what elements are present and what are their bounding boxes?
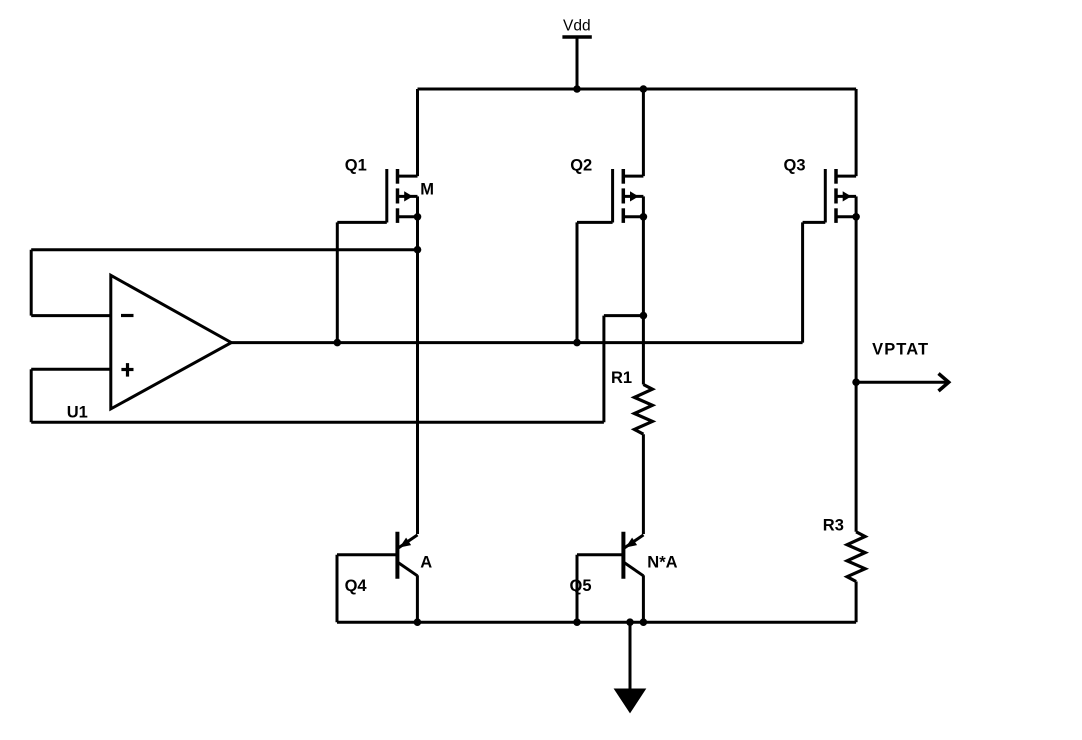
junction R1 top sense tap [640, 312, 648, 320]
junction Q1 source/bulk tie [414, 213, 422, 221]
wire Q4 base (diode tie) [337, 555, 398, 623]
wire inverting input [31, 314, 111, 317]
wire VPTAT output arrow [856, 374, 949, 392]
transistor Q4 (bipolar) [397, 532, 417, 622]
junction Q1 drain sense tap [414, 246, 422, 254]
svg-text:M: M [420, 180, 434, 198]
junction Q2 source/bulk tie [640, 213, 648, 221]
junction Q4 emitter on rail [414, 618, 422, 626]
junction ground stem on rail [626, 618, 634, 626]
wire R1 bottom to Q5 collector [642, 434, 645, 534]
wire R3 bottom to ground rail [855, 582, 858, 623]
resistor R3 [847, 532, 865, 582]
junction Vdd stem on rail [573, 85, 581, 93]
svg-text:N*A: N*A [647, 553, 677, 571]
junction op-amp output / Q2 gate [573, 339, 581, 347]
svg-text:A: A [420, 553, 432, 571]
wire Q1 source down to Q4 collector [416, 217, 419, 534]
junction Q5 emitter on rail [640, 618, 648, 626]
junction Q2 drain on rail [640, 85, 648, 93]
wire Q1 drain to rail [416, 89, 419, 176]
ground symbol [614, 622, 647, 713]
wire Q3 gate lead [803, 222, 826, 342]
junction Q5 base on rail [573, 618, 581, 626]
transistor Q3 (PMOS) [825, 169, 856, 223]
wire non-inverting feedback from R1 top [31, 316, 643, 423]
wire Q3 source down to VPTAT node [855, 217, 858, 532]
transistor Q1 (PMOS) [387, 169, 418, 223]
wire inverting feedback from Q1 drain [31, 250, 417, 316]
wire Q3 drain to rail [855, 89, 858, 176]
junction VPTAT tap [852, 378, 860, 386]
svg-text:VPTAT: VPTAT [872, 341, 929, 359]
power symbol Vdd [562, 37, 591, 89]
wire op-amp output [231, 341, 802, 344]
wire Q2 drain to rail [642, 89, 645, 176]
wire Q1 gate lead [337, 222, 387, 342]
junction Q3 source/bulk tie [852, 213, 860, 221]
transistor Q2 (PMOS) [613, 169, 644, 223]
wire Q5 base (diode tie) [577, 555, 624, 623]
transistor Q5 (bipolar) [623, 532, 643, 622]
svg-text:Q1: Q1 [345, 157, 367, 175]
svg-text:R3: R3 [823, 516, 844, 534]
resistor R1 [634, 385, 652, 435]
svg-text:R1: R1 [611, 369, 632, 387]
svg-text:Q2: Q2 [570, 157, 592, 175]
svg-text:Q5: Q5 [570, 577, 592, 595]
wire Q2 source down to R1 [642, 217, 645, 385]
svg-text:Q4: Q4 [345, 577, 368, 595]
wire bottom ground rail [337, 621, 856, 624]
wire top supply rail [418, 88, 857, 91]
svg-text:Vdd: Vdd [563, 18, 591, 35]
junction op-amp output / Q1 gate [334, 339, 342, 347]
svg-text:Q3: Q3 [784, 157, 806, 175]
svg-text:U1: U1 [67, 403, 88, 421]
wire Q2 gate lead [577, 222, 613, 342]
wire non-inverting input [31, 368, 111, 371]
op-amp U1 [111, 275, 232, 409]
